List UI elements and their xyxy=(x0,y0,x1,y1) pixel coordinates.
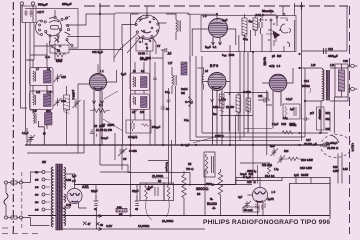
trimmer C5 center xyxy=(118,145,137,170)
contact dots lower S1A xyxy=(51,39,73,52)
power transformer secondary 3 xyxy=(64,206,66,226)
label x48 4.3V xyxy=(96,222,112,228)
trimmer cap at V6 xyxy=(238,195,251,208)
svg-text:2.μF: 2.μF xyxy=(148,185,153,189)
svg-text:R11: R11 xyxy=(326,112,331,115)
label 50000 ohm xyxy=(205,169,223,216)
svg-text:L20: L20 xyxy=(311,63,316,67)
capacitor tick on x168 xyxy=(167,100,171,102)
voltage selector terminal 160 xyxy=(35,193,45,197)
bottom filament wire y=226 xyxy=(60,228,205,230)
zigzag under y128 wire xyxy=(282,131,293,134)
trimmer box below S1B xyxy=(136,38,153,56)
wire y=54 to cap C13 xyxy=(302,6,348,51)
switch contact wires S1A xyxy=(50,10,74,43)
IF transformer can T1 xyxy=(30,67,54,86)
svg-text:R150.5W: R150.5W xyxy=(300,166,312,170)
speaker field coil box xyxy=(335,64,348,97)
antenna terminal A2 xyxy=(31,2,34,12)
pointer lines R6 R8 xyxy=(146,201,170,220)
svg-text:2μ11R0.5W: 2μ11R0.5W xyxy=(294,174,309,177)
wire below S1B to tuning cap xyxy=(140,43,156,60)
wire left drop x=14 xyxy=(21,5,28,108)
svg-text:3000Ω: 3000Ω xyxy=(302,84,310,88)
svg-text:-Ω-: -Ω- xyxy=(212,206,216,210)
box 50cond xyxy=(243,207,259,212)
svg-text:C17: C17 xyxy=(306,138,311,142)
svg-text:15.000μμF: 15.000μμF xyxy=(304,142,317,146)
labels band above V6 xyxy=(240,164,278,176)
tube V1 EF9 top (217,29) xyxy=(209,19,228,46)
svg-text:R9: R9 xyxy=(197,192,201,196)
trimmer 0.1uF left xyxy=(22,131,35,142)
svg-text:C6 50: C6 50 xyxy=(138,52,145,56)
svg-text:5μμF: 5μμF xyxy=(121,74,127,76)
ground bus terminal xyxy=(320,133,327,148)
svg-text:21,000Ω: 21,000Ω xyxy=(162,219,174,223)
box C12 xyxy=(126,120,151,139)
wires T3 T4 verticals xyxy=(123,44,145,145)
capacitor C1 xyxy=(22,6,36,23)
svg-text:4μF: 4μF xyxy=(238,195,243,199)
svg-text:5.08: 5.08 xyxy=(66,178,72,182)
wire x163 top xyxy=(152,50,163,58)
wire B+ rail bottom xyxy=(75,184,237,186)
resistor box x236 xyxy=(236,95,241,117)
zigzag small x269 xyxy=(267,164,270,174)
wire vertical x=150 xyxy=(149,51,151,145)
svg-text:AZ1: AZ1 xyxy=(82,185,89,189)
resistor boxes column x228 xyxy=(220,94,225,112)
svg-text:R18μ1Ω: R18μ1Ω xyxy=(262,164,272,167)
label C14 3000 xyxy=(302,79,311,93)
svg-text:800μμF: 800μμF xyxy=(152,125,161,129)
capacitor C8 on x163 xyxy=(161,105,170,112)
enclosure box detector stage xyxy=(201,16,296,52)
detector triode symbol xyxy=(268,24,288,46)
wire staircase y=140.7 xyxy=(190,140,300,142)
box bottom right 1 xyxy=(236,178,282,181)
dashed ellipse pickup xyxy=(321,135,352,158)
mains cord squiggle xyxy=(4,193,8,205)
wire x283 top xyxy=(282,6,284,16)
wire x253 top xyxy=(239,20,295,52)
border bottom-left dashes xyxy=(2,228,42,234)
capacitor C11 xyxy=(258,98,272,106)
wire V4 pins xyxy=(262,68,293,83)
label 3500 R9 xyxy=(196,187,209,196)
svg-text:μ55±5: μ55±5 xyxy=(272,54,282,58)
wire to output transformer top y=68 xyxy=(299,67,322,69)
coil L17 right of T3 xyxy=(168,61,177,94)
wire L15 step to bus xyxy=(38,121,45,145)
wire v6 grid feeds xyxy=(253,145,258,184)
svg-text:C11: C11 xyxy=(258,94,263,98)
svg-text:290μμF: 290μμF xyxy=(140,57,149,61)
svg-text:C≈300: C≈300 xyxy=(243,90,251,94)
wire vertical x=230 xyxy=(229,45,231,145)
svg-text:500μμF: 500μμF xyxy=(38,3,48,7)
antenna terminal A1 xyxy=(20,2,23,12)
wire radial S1B down-left xyxy=(114,34,141,59)
svg-text:C≈1μF: C≈1μF xyxy=(181,143,190,147)
svg-text:E F 9: E F 9 xyxy=(210,64,218,68)
svg-text:C5: C5 xyxy=(123,157,127,161)
svg-text:2.5: 2.5 xyxy=(33,109,37,113)
wire y=172 center xyxy=(100,171,130,173)
wires selector to primary xyxy=(45,172,51,210)
detector extra dots xyxy=(265,19,288,41)
svg-text:50 cond: 50 cond xyxy=(244,209,253,212)
labels R11 30 R10 xyxy=(310,112,331,131)
enclosure box top-left xyxy=(25,9,78,49)
wire vertical pair x=239 xyxy=(266,90,268,155)
wire bus left corner xyxy=(27,128,30,145)
resistor box R18 xyxy=(283,104,300,119)
svg-text:R5: R5 xyxy=(188,162,192,166)
resistor box x246 xyxy=(246,98,251,113)
svg-text:C7: C7 xyxy=(157,44,161,48)
svg-text:R18: R18 xyxy=(333,166,338,169)
capacitor C13 xyxy=(324,48,327,54)
svg-text:4800μμF: 4800μμF xyxy=(328,54,338,58)
grid cap wire V2 xyxy=(97,64,99,73)
tube V2 ECH4 (98,84) xyxy=(89,73,106,145)
wire x78 from V2 xyxy=(77,84,79,153)
wire rail y92 xyxy=(224,92,268,94)
svg-text:5.28: 5.28 xyxy=(66,203,72,207)
svg-text:C=450: C=450 xyxy=(129,149,137,153)
wire AZ1 anode to rail xyxy=(75,183,138,195)
svg-text:78.Ω μ6.3: 78.Ω μ6.3 xyxy=(165,162,167,172)
wire vertical x=168.5 xyxy=(148,88,172,185)
wire vertical x=155 xyxy=(154,62,156,145)
svg-text:L17: L17 xyxy=(168,61,173,65)
switch S1B contact wires xyxy=(143,6,167,44)
svg-text:0.μμ1000: 0.μμ1000 xyxy=(222,53,235,57)
wire x84 xyxy=(83,100,85,153)
svg-text:R 4: R 4 xyxy=(99,104,103,107)
svg-text:0.1μF: 0.1μF xyxy=(286,97,293,101)
svg-text:μ17: μ17 xyxy=(310,112,315,115)
svg-text:C14: C14 xyxy=(304,79,309,83)
tube V3 EF9 (216,85) xyxy=(208,73,226,146)
wire vertical trio x=196 xyxy=(195,56,197,137)
svg-text:L11: L11 xyxy=(36,90,41,94)
mains switch contact P1b xyxy=(5,216,23,219)
wire vertical trio x=202 xyxy=(201,56,203,133)
svg-text:C12(μF): C12(μF) xyxy=(128,135,137,139)
svg-text:Sv.Ω4: Sv.Ω4 xyxy=(181,88,188,91)
junction dots main xyxy=(99,13,306,217)
tube V4 EBL1 (278,83) xyxy=(269,74,287,128)
resistor R11 small horizontal xyxy=(283,157,302,160)
capacitor left of pot xyxy=(302,117,310,121)
power transformer primary winding xyxy=(51,167,53,227)
main ground bus wire y=132 xyxy=(25,144,330,146)
speaker terminal S1 xyxy=(348,64,357,68)
svg-text:5ooμF: 5ooμF xyxy=(101,136,108,140)
svg-text:0.5M-: 0.5M- xyxy=(213,105,219,109)
svg-text:μ.1500 Ω: μ.1500 Ω xyxy=(72,90,74,100)
voltage selector terminal 220 xyxy=(35,201,45,205)
wire from wafer right to x=100 xyxy=(74,3,114,25)
speaker terminal S2 xyxy=(348,87,357,91)
wire y=177 bottom right xyxy=(236,178,330,220)
junction top right cross xyxy=(300,2,303,10)
svg-text:4.3V: 4.3V xyxy=(106,224,112,228)
trimmer C16 arrow xyxy=(54,98,67,106)
power transformer core xyxy=(56,164,63,230)
svg-text:C48: C48 xyxy=(343,59,348,63)
wire rail y115 xyxy=(220,115,253,117)
svg-text:32μF: 32μF xyxy=(91,189,98,193)
svg-text:R1.50.3: R1.50.3 xyxy=(265,175,275,178)
svg-text:L21: L21 xyxy=(330,63,335,67)
svg-text:25.000: 25.000 xyxy=(226,105,234,109)
svg-text:101: 101 xyxy=(181,92,186,95)
border right dashed line xyxy=(349,6,351,234)
svg-text:4 5: 4 5 xyxy=(72,179,76,183)
wire speaker top xyxy=(330,66,348,101)
small arrows under V3 xyxy=(211,99,222,102)
wire left drop x=28 xyxy=(26,23,35,132)
wires bottom right verticals xyxy=(296,178,330,184)
svg-text:L 1: L 1 xyxy=(100,69,104,73)
detector extra wires xyxy=(258,9,288,42)
svg-text:0.013: 0.013 xyxy=(256,13,264,17)
voltage selector terminal 245 xyxy=(35,208,45,212)
svg-text:0.5Wμ: 0.5Wμ xyxy=(215,134,224,138)
pointer diagonals center xyxy=(103,91,123,131)
svg-text:C61 5μμF: C61 5μμF xyxy=(92,50,103,54)
trimmer C4 at V2 grid xyxy=(73,99,81,108)
IF transformer can T4 xyxy=(130,94,150,114)
oscillator coil L4 xyxy=(166,14,181,40)
coil pair bottom L15 xyxy=(33,109,52,125)
svg-text:0.5Ω: 0.5Ω xyxy=(117,207,122,209)
svg-text:50.000: 50.000 xyxy=(207,202,217,206)
rectifier tube AZ1 xyxy=(62,174,87,208)
voltage selector terminal 125 xyxy=(35,178,45,182)
svg-text:0.1μF: 0.1μF xyxy=(22,131,29,135)
wire resistor column connections xyxy=(229,93,270,132)
wire S1A contact left xyxy=(34,37,123,50)
detector cathode hook xyxy=(287,28,291,47)
wire vertical pair x=235 xyxy=(235,115,237,185)
wire S1B left to x=130 xyxy=(122,14,139,45)
svg-text:32μF: 32μF xyxy=(132,189,139,193)
pickup wires to box xyxy=(333,153,348,184)
coil core rect left of EF9 xyxy=(181,62,187,75)
wire arrows bottom xyxy=(96,207,102,231)
svg-text:280μμF: 280μμF xyxy=(62,2,72,6)
svg-text:PHILIPS RADIOFONOGRAFO TIPO 99: PHILIPS RADIOFONOGRAFO TIPO 996 xyxy=(203,219,330,226)
capacitor tick on x155 xyxy=(153,78,157,80)
label x47 xyxy=(83,222,91,227)
svg-text:30Ω: 30Ω xyxy=(326,118,331,121)
svg-text:3800 Ω: 3800 Ω xyxy=(196,187,209,191)
wire x115 xyxy=(114,133,116,160)
svg-text:R712ØΦ: R712ØΦ xyxy=(102,123,114,127)
svg-text:14,000Ω: 14,000Ω xyxy=(138,224,150,228)
resistor hatched horizontal 50ohm xyxy=(116,207,127,216)
wire vertical x=175.5 xyxy=(175,86,177,145)
svg-text:L 6: L 6 xyxy=(272,190,276,194)
svg-text:Bilanciam.: Bilanciam. xyxy=(262,9,274,13)
wire staircase verticals xyxy=(240,52,248,141)
label 0.5W pointer xyxy=(193,134,224,143)
wire vertical x=163 xyxy=(162,58,164,145)
wires under detector to bus xyxy=(262,27,284,52)
svg-text:C15: C15 xyxy=(61,75,66,79)
svg-text:R190.5W: R190.5W xyxy=(301,158,313,162)
wire can1 top to left xyxy=(26,55,47,60)
svg-text:1μF: 1μF xyxy=(290,107,295,111)
box bottom right 2 xyxy=(290,184,331,215)
enclosure box oscillator stage xyxy=(114,13,190,62)
volume pot box xyxy=(317,107,325,130)
trimmer C15 arrow xyxy=(54,74,67,82)
resistor R1 box below S1A xyxy=(50,45,69,63)
svg-text:300Ω: 300Ω xyxy=(290,123,296,127)
wire vertical trio x=190 xyxy=(189,56,191,141)
capacitor below V2 xyxy=(90,129,97,137)
svg-text:12ØΦ: 12ØΦ xyxy=(96,129,104,132)
bandswitch wafer S1A rear arc xyxy=(36,20,43,36)
wire horizontal top right y=13 xyxy=(294,3,296,16)
svg-text:400Ω1μ: 400Ω1μ xyxy=(247,170,256,173)
svg-text:S,μ.2(B): S,μ.2(B) xyxy=(263,57,265,66)
svg-text:L13: L13 xyxy=(47,90,52,94)
bandswitch wafer S1A xyxy=(44,16,69,37)
wire wafer bottom to IF can xyxy=(47,43,55,60)
wire V2 left pin xyxy=(78,70,117,84)
svg-text:780Ω: 780Ω xyxy=(186,167,193,171)
trimmers below bus right xyxy=(270,145,289,163)
wire y163 xyxy=(240,162,270,164)
resistor R5 box xyxy=(204,152,215,177)
svg-text:21,000Ω: 21,000Ω xyxy=(152,174,163,178)
bandswitch wafer S1B xyxy=(135,15,159,39)
wire left ground segment y=153 xyxy=(27,152,84,154)
IF transformer can T3 xyxy=(130,70,150,91)
coil L5 grid xyxy=(198,68,204,90)
capacitor 32uF C19 xyxy=(91,189,99,211)
output transformer T5 windings xyxy=(323,68,330,102)
border top dashed line xyxy=(84,5,348,7)
wire vertical x=299 xyxy=(301,6,303,141)
hatch under V6 xyxy=(256,203,265,210)
resistor R4 vertical hatched xyxy=(253,14,258,36)
power transformer secondary HT winding xyxy=(64,167,66,189)
svg-text:2W: 2W xyxy=(42,160,46,164)
svg-text:Li+.000μF: Li+.000μF xyxy=(326,141,338,145)
capacitor C7 at x163 xyxy=(157,44,171,55)
svg-text:-S 4-: -S 4- xyxy=(45,56,50,59)
svg-text:L 8: L 8 xyxy=(203,14,207,18)
capacitor C9 xyxy=(259,18,262,34)
wire vertical bus x=130 xyxy=(130,14,132,216)
svg-text:C13: C13 xyxy=(328,47,333,51)
wire vertical bus x=100 xyxy=(100,3,190,186)
wire staircase y=137 xyxy=(196,136,305,138)
power transformer secondary 2 xyxy=(64,194,66,202)
resistor 3500 vertical xyxy=(182,171,186,216)
wire V3 pins xyxy=(204,81,231,83)
mains switch contact P1a xyxy=(5,181,23,184)
svg-text:12ØΦ: 12ØΦ xyxy=(104,128,112,132)
border left dash-dot line xyxy=(12,2,14,233)
IF transformer can T2 xyxy=(30,90,54,110)
wires IF cans verticals xyxy=(33,55,53,129)
box R6 R8 bottom center xyxy=(140,180,174,201)
mains switch linkage dashed xyxy=(21,172,23,230)
resistor R4 below V2 xyxy=(90,104,110,132)
voltage selector terminal 145 xyxy=(35,186,45,190)
detector diode plates xyxy=(270,14,285,28)
bottom bus wire y=219 xyxy=(28,215,330,217)
resistor R3 vertical hatched xyxy=(242,14,247,52)
wire pot feeds xyxy=(321,97,334,134)
wire left x=22 lower xyxy=(28,60,37,110)
capacitor 32uF C20 xyxy=(132,189,140,211)
voltage selector terminal 110 xyxy=(35,171,45,175)
wire staircase y=133 xyxy=(202,132,328,134)
wire antenna down-left xyxy=(22,12,33,22)
svg-text:0.5W: 0.5W xyxy=(333,170,339,173)
resistor on x196 xyxy=(189,96,192,107)
svg-text:0.15: 0.15 xyxy=(343,168,348,171)
output tube V6 xyxy=(236,178,268,216)
junction dots y133 xyxy=(299,132,322,134)
wire vertical x=253 xyxy=(252,52,254,145)
svg-text:+12 V: +12 V xyxy=(37,10,44,14)
wires V1 to IF xyxy=(192,29,236,56)
resistor R3 hatched left xyxy=(64,86,70,145)
svg-text:M16: M16 xyxy=(270,145,275,148)
svg-text:C.V.300μF: C.V.300μF xyxy=(318,109,320,120)
svg-text:R14: R14 xyxy=(284,150,289,153)
svg-text:ΩμPII: ΩμPII xyxy=(268,197,275,201)
wire top x217 xyxy=(187,14,217,20)
svg-text:0.8μF: 0.8μF xyxy=(56,58,63,62)
wire mains to transformer xyxy=(6,172,50,226)
svg-text:2μμF: 2μμF xyxy=(222,18,228,22)
svg-text:V1.500Ω: V1.500Ω xyxy=(327,146,338,150)
wire vertical x=305 xyxy=(304,68,306,137)
rotor X symbol S1A xyxy=(55,38,60,43)
svg-text:1.2μ: 1.2μ xyxy=(274,168,278,171)
wire output transformer bottom y=101 xyxy=(305,100,322,102)
svg-text:0.1: 0.1 xyxy=(168,51,172,55)
